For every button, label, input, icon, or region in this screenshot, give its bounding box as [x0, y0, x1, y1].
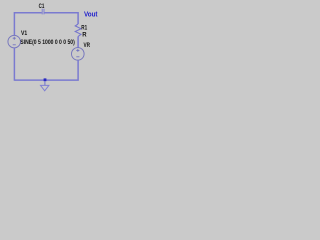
capacitor C1 plates [41, 9, 43, 15]
svg-text:V1: V1 [21, 31, 28, 37]
junction dot at ground tap [44, 78, 47, 81]
background [0, 0, 120, 104]
resistor R1 zigzag [75, 24, 81, 36]
ground triangle [41, 85, 49, 90]
VR plus sign [76, 49, 79, 52]
svg-text:R: R [82, 32, 87, 38]
V1 plus sign [13, 37, 16, 40]
wire top-left: V1 top to capacitor left plate [14, 13, 41, 36]
wire V1 bottom to bottom rail [13, 48, 15, 81]
V1 minus sign [13, 44, 16, 46]
svg-text:R1: R1 [81, 26, 87, 32]
svg-text:SINE(0 5 1000 0 0 0 50): SINE(0 5 1000 0 0 0 50) [20, 40, 75, 46]
ground stub [44, 81, 46, 85]
wire top-right: capacitor right plate to right branch corner [44, 13, 78, 24]
svg-text:C1: C1 [39, 4, 45, 10]
voltage source V1 circle [8, 35, 21, 48]
voltage source VR circle [72, 48, 85, 61]
svg-text:Vout: Vout [84, 11, 98, 18]
VR minus sign [76, 56, 79, 58]
svg-text:VR: VR [84, 43, 91, 49]
wire resistor bottom to VR top [77, 36, 79, 47]
wire VR bottom to bottom rail [14, 60, 78, 80]
